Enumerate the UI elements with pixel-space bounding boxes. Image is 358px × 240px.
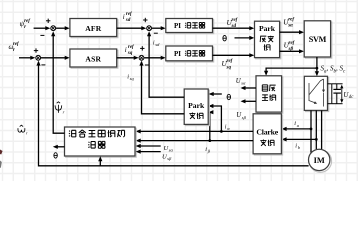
block inverter (bridge) bbox=[306, 78, 329, 112]
wire i_beta up into Park transform bbox=[208, 112, 211, 140]
svg-text:sβ: sβ bbox=[242, 115, 247, 120]
svg-text:sq: sq bbox=[226, 65, 232, 70]
wire inverter phase leg a bbox=[310, 110, 312, 152]
svg-text:r: r bbox=[24, 25, 26, 30]
wire SVM output down to inverter bbox=[316, 57, 318, 75]
wire Clarke i_alpha to observer bbox=[137, 130, 253, 132]
svg-text:PI: PI bbox=[174, 50, 181, 58]
svg-text:IM: IM bbox=[314, 156, 325, 165]
block Park inverse transform bbox=[256, 22, 281, 58]
wire theta stub to Park inverse bbox=[235, 37, 253, 39]
svg-text:r: r bbox=[63, 110, 65, 115]
junction dot i_alpha branch bbox=[220, 130, 223, 133]
capacitor C dc-link bbox=[336, 84, 338, 90]
wire J3 to PI regulator 1 bbox=[152, 27, 164, 29]
scan artifact marks left edge bbox=[0, 150, 3, 155]
summing junction J3 (d-current) bbox=[147, 26, 152, 31]
summing junction J2 (speed) bbox=[36, 55, 41, 60]
plus sign at J2 bbox=[34, 50, 38, 52]
U_dc voltage arrow bbox=[341, 86, 343, 101]
summing junction J4 (q-current) bbox=[139, 55, 144, 60]
svg-text:Park: Park bbox=[188, 101, 205, 110]
junction dot i_a tap bbox=[310, 127, 313, 130]
dc-link bus bracket bbox=[331, 84, 333, 104]
svg-text:i: i bbox=[123, 13, 125, 21]
label theta (into Park transform) bbox=[227, 94, 230, 99]
summing junction J1 (flux) bbox=[51, 26, 56, 31]
wire AFR to summer J3 bbox=[117, 27, 145, 29]
wire Clarke i_beta to observer bbox=[137, 140, 253, 142]
wire inverter phase leg c bbox=[321, 110, 323, 149]
svg-text:sα: sα bbox=[241, 81, 246, 86]
block voltage reconstruction bbox=[257, 77, 283, 113]
junction dot SVM output branch bbox=[316, 67, 319, 70]
wire i_alpha up into Park transform bbox=[210, 106, 221, 131]
minus sign at J4 bbox=[145, 64, 149, 66]
wire omega_ref to summer J2 bbox=[19, 57, 34, 59]
svg-text:SVM: SVM bbox=[309, 35, 327, 44]
wire U_salpha stub into observer bbox=[137, 145, 160, 147]
wire U_salpha stub from voltage reconstruction bbox=[242, 87, 256, 89]
wire Park i_sd output up to J3 bbox=[149, 33, 184, 97]
svg-text:r: r bbox=[13, 48, 15, 53]
wire U_sbeta stub into observer bbox=[137, 151, 160, 153]
plus sign at J4 bbox=[140, 47, 144, 49]
wire branch up into observer bottom bbox=[99, 158, 101, 166]
wire theta stub from observer bbox=[54, 146, 64, 148]
svg-text:sq: sq bbox=[127, 51, 133, 56]
wire i_b to Clarke bbox=[283, 138, 316, 140]
minus sign at J1 bbox=[40, 34, 44, 36]
wire Park i_sq output up to J4 bbox=[142, 62, 185, 113]
minus sign at J2 bbox=[41, 64, 45, 66]
motor IM bbox=[309, 150, 331, 172]
wire speed feedback from IM along bottom and up to J2 bbox=[39, 62, 309, 165]
wire psi_ref to summer J1 bbox=[34, 27, 49, 29]
svg-text:AFR: AFR bbox=[85, 24, 102, 33]
svg-text:Park: Park bbox=[259, 24, 276, 33]
wire J4 to PI regulator 2 bbox=[144, 57, 164, 59]
block PI regulator 2 (q-axis) bbox=[167, 47, 214, 62]
block Clarke transform bbox=[254, 115, 282, 155]
wire J2 to ASR bbox=[41, 57, 68, 59]
wire observer psi_r output up to J1 bbox=[53, 33, 64, 133]
wire i_a to Clarke bbox=[283, 128, 311, 130]
wire branch to voltage reconstruction bbox=[266, 68, 317, 74]
label theta (into Park inverse) bbox=[223, 36, 226, 41]
svg-text:i: i bbox=[125, 46, 127, 54]
block SVM bbox=[305, 22, 331, 58]
svg-text:sα: sα bbox=[287, 24, 293, 29]
svg-text:PI: PI bbox=[174, 22, 181, 30]
block ASR (speed regulator) bbox=[71, 50, 118, 68]
wire PI2 to Park inverse bbox=[213, 54, 253, 56]
dc-link wire bottom bbox=[328, 103, 332, 105]
block hybrid flux observer bbox=[66, 128, 137, 157]
svg-text:ASR: ASR bbox=[85, 54, 101, 63]
svg-text:Clarke: Clarke bbox=[256, 128, 278, 137]
label psi_r_hat bbox=[55, 102, 62, 113]
svg-text:sα: sα bbox=[169, 147, 174, 152]
wire Park inverse to SVM (beta) bbox=[280, 50, 303, 52]
wire Park inverse to SVM (alpha) bbox=[280, 31, 303, 33]
junction dot i_b tap bbox=[315, 138, 318, 141]
label theta (observer output) bbox=[54, 153, 57, 158]
inverter internal IGBT sketch bbox=[309, 79, 324, 107]
wire ASR to summer J4 bbox=[117, 57, 137, 59]
block Park transform bbox=[185, 90, 209, 125]
block PI regulator 1 (d-axis) bbox=[167, 20, 214, 34]
wire inverter phase leg b bbox=[315, 110, 317, 149]
plus sign at J1 bbox=[46, 20, 50, 22]
wire PI1 to Park inverse bbox=[213, 27, 253, 29]
wire U_sbeta stub from voltage reconstruction bbox=[242, 100, 256, 102]
junction dot i_beta branch bbox=[208, 139, 211, 142]
svg-text:r: r bbox=[26, 131, 28, 136]
block AFR (flux regulator) bbox=[71, 20, 118, 38]
dc-link wire top bbox=[328, 83, 332, 85]
wire theta stub into Park transform bbox=[210, 93, 222, 95]
minus sign at J3 bbox=[154, 32, 158, 34]
plus sign at J3 bbox=[143, 19, 147, 21]
svg-text:sd: sd bbox=[125, 18, 131, 23]
wire J1 to AFR bbox=[56, 27, 68, 29]
label omega_r_hat bbox=[18, 125, 25, 132]
